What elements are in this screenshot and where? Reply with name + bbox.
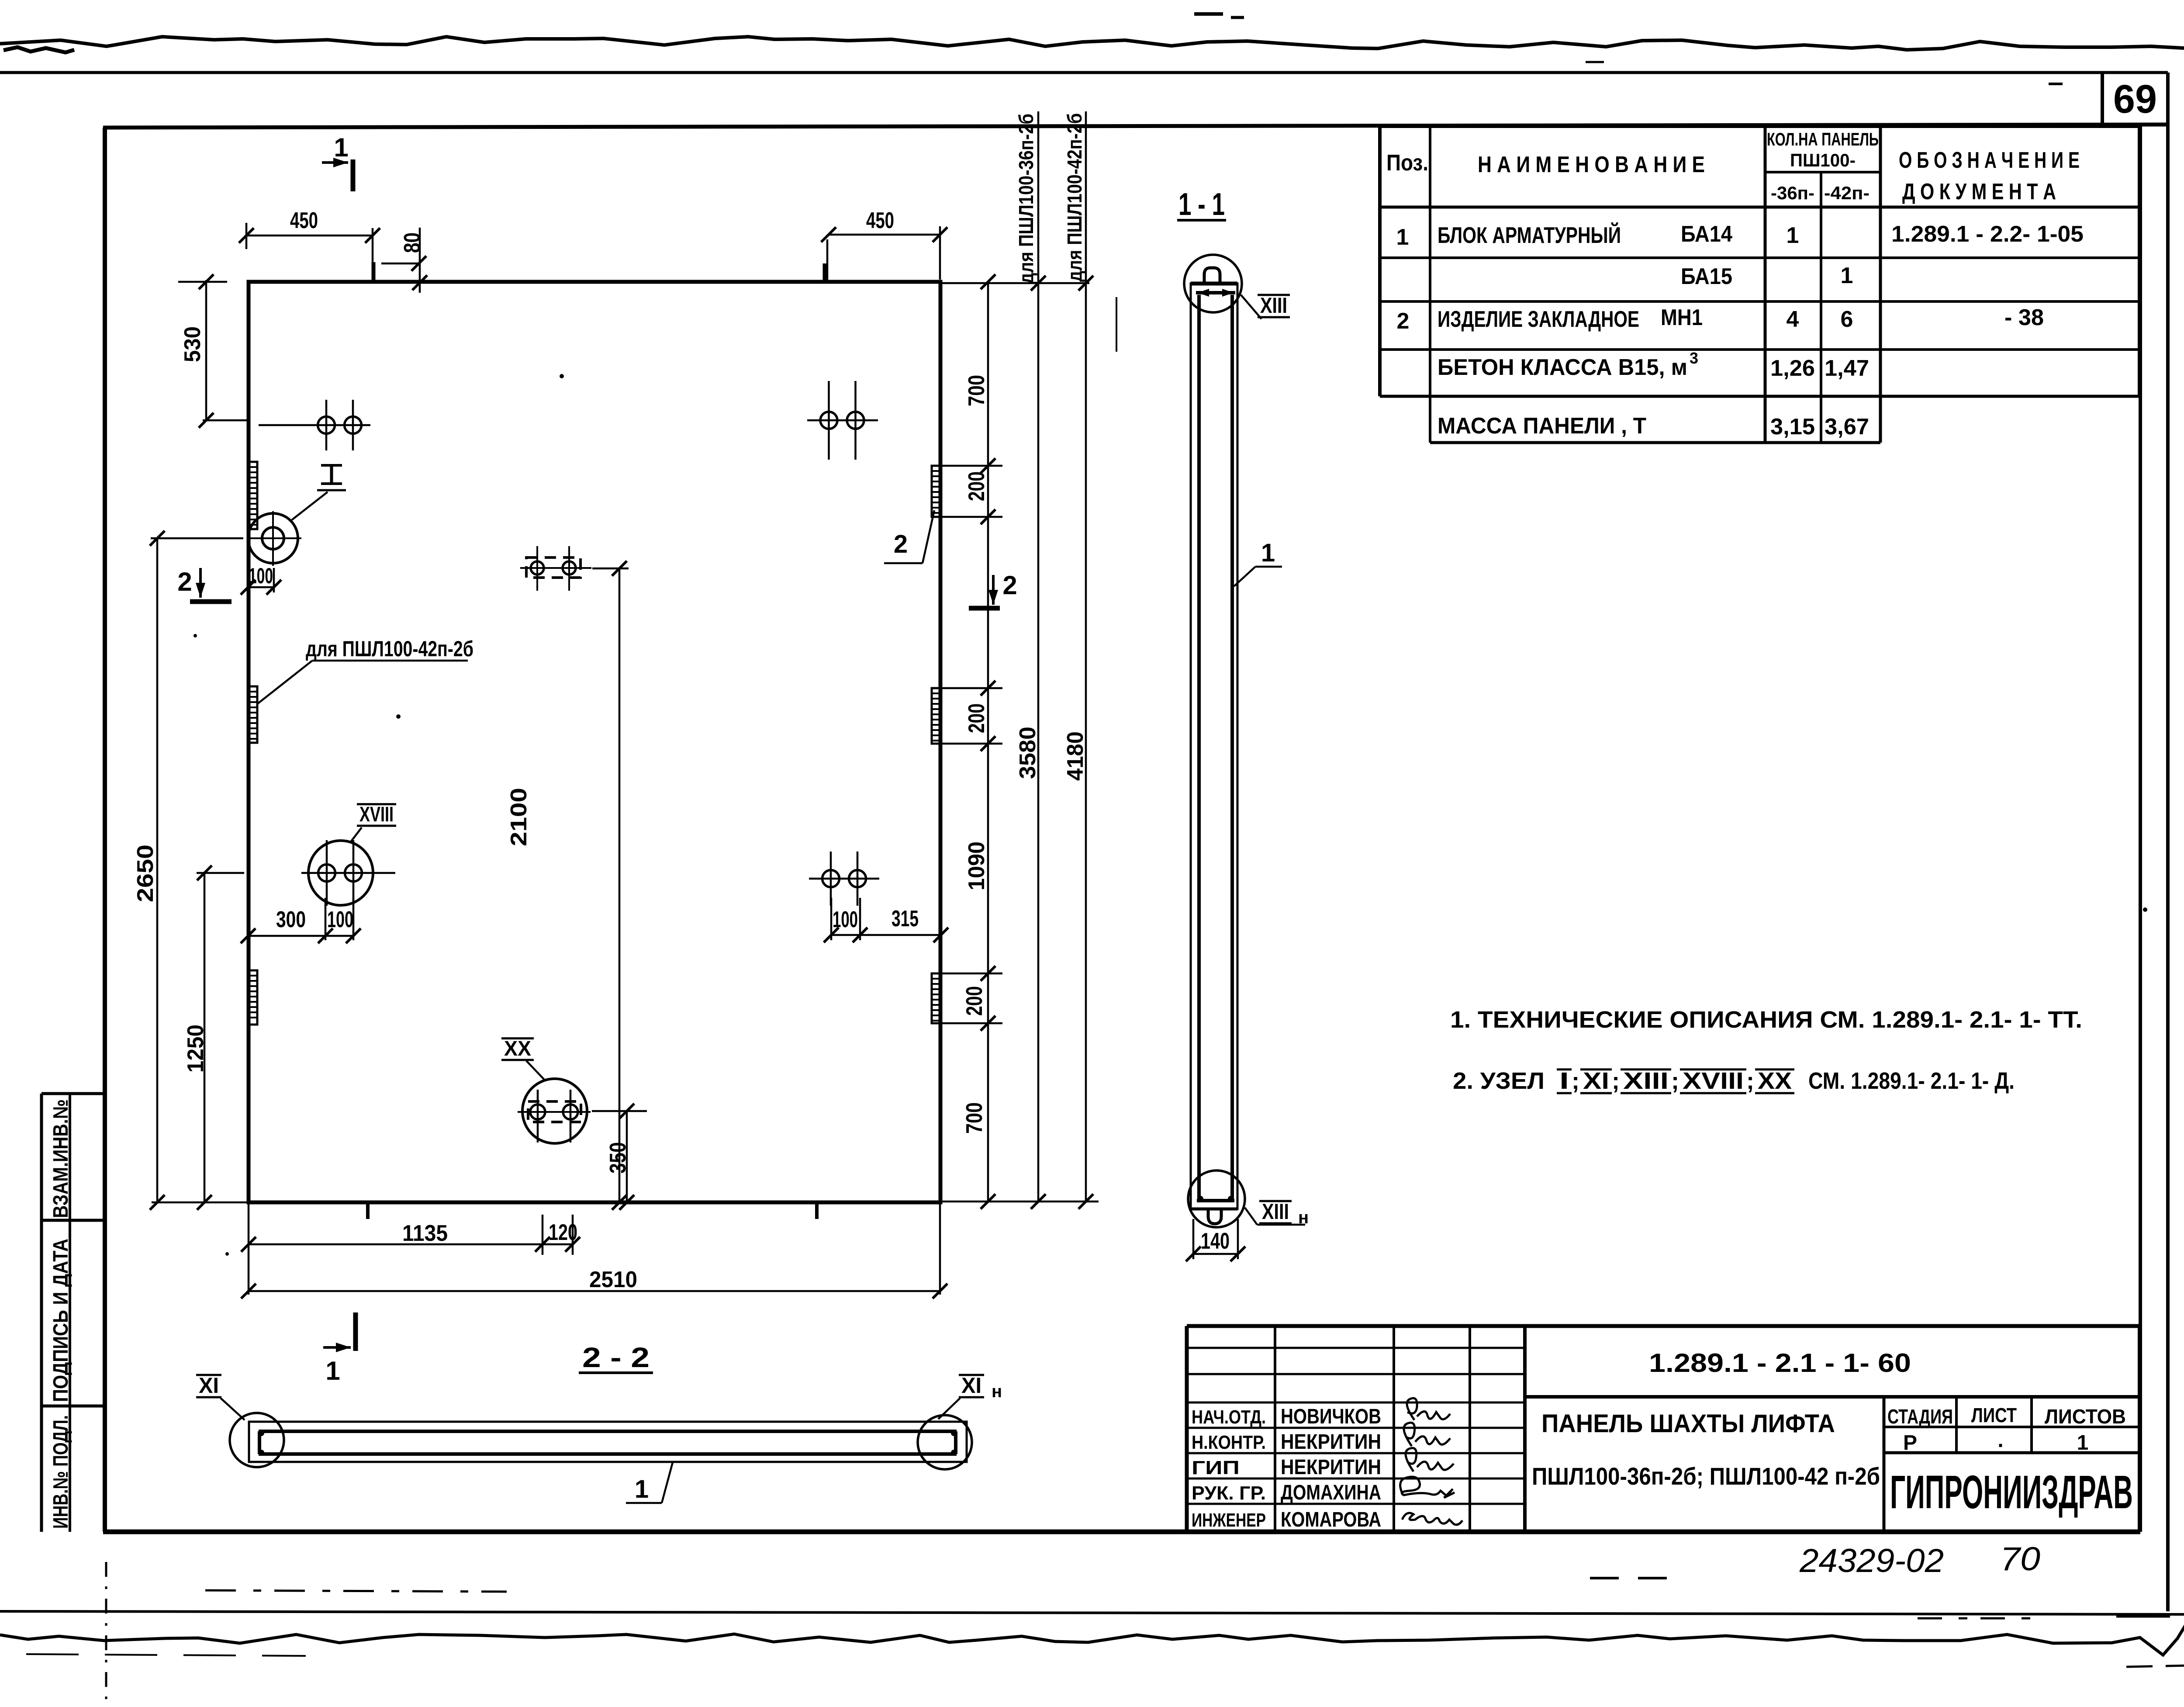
svg-text:200: 200 (962, 986, 987, 1016)
anchor pair top-right (807, 419, 878, 422)
svg-text:ИЗДЕЛИЕ ЗАКЛАДНОЕ: ИЗДЕЛИЕ ЗАКЛАДНОЕ (1438, 307, 1639, 332)
svg-text:XIII: XIII (1262, 1199, 1289, 1224)
dimension 2100 centre (592, 568, 629, 570)
embedded strip R3 (932, 973, 940, 1023)
sheet bottom rule (0, 1611, 2184, 1614)
svg-text:Р: Р (1903, 1431, 1917, 1454)
svg-text:1135: 1135 (402, 1221, 448, 1246)
svg-text:2100: 2100 (506, 788, 532, 846)
section 1-1 bottom bracket (1197, 1199, 1234, 1202)
svg-text:Н.КОНТР.: Н.КОНТР. (1192, 1432, 1266, 1453)
svg-text:315: 315 (892, 906, 919, 931)
svg-text:для ПШЛ100-42п-2б: для ПШЛ100-42п-2б (1063, 113, 1086, 282)
svg-text:140: 140 (1201, 1229, 1230, 1254)
section 1-1 rebar lines (1197, 295, 1201, 1201)
right dimension chain 700/200/200/1090/200/700 (987, 282, 989, 1201)
dimension 2650 left (156, 538, 159, 1202)
section 1-1 top cap (1191, 282, 1237, 286)
svg-text:69: 69 (2113, 77, 2157, 121)
dimension 300 and 100 bottom-left (248, 935, 353, 937)
embedded strip R2 (932, 688, 940, 744)
svg-text:100: 100 (249, 564, 273, 588)
svg-text:I: I (1559, 1068, 1569, 1094)
node XVIII circle (308, 841, 373, 905)
anchor pair top-left (259, 424, 370, 426)
svg-text:3,67: 3,67 (1825, 414, 1869, 440)
svg-text:1: 1 (325, 1356, 340, 1385)
svg-text:2. УЗЕЛ: 2. УЗЕЛ (1453, 1068, 1545, 1094)
svg-text:2: 2 (177, 567, 192, 596)
svg-text:XX: XX (1758, 1068, 1792, 1094)
section 1-1 bottom circle (1188, 1170, 1245, 1227)
svg-text:1: 1 (2077, 1431, 2089, 1454)
svg-text:100: 100 (833, 907, 858, 932)
svg-text:70: 70 (2000, 1541, 2040, 1578)
svg-text:СТАДИЯ: СТАДИЯ (1887, 1405, 1953, 1428)
svg-text:Поз.: Поз. (1386, 150, 1428, 176)
svg-text:2 - 2: 2 - 2 (582, 1342, 650, 1373)
node I label (321, 464, 342, 467)
svg-text:ГИПРОНИИЗДРАВ: ГИПРОНИИЗДРАВ (1890, 1465, 2133, 1518)
svg-text:1,47: 1,47 (1825, 356, 1869, 381)
node XX circle (522, 1079, 587, 1143)
svg-text:XI: XI (199, 1373, 219, 1398)
svg-text:СМ. 1.289.1- 2.1- 1- Д.: СМ. 1.289.1- 2.1- 1- Д. (1808, 1068, 2015, 1094)
svg-text:1.289.1 - 2.2- 1-05: 1.289.1 - 2.2- 1-05 (1891, 222, 2084, 247)
svg-text:530: 530 (180, 326, 205, 362)
svg-text:1: 1 (635, 1475, 649, 1503)
svg-text:ИНВ.№ ПОДЛ.: ИНВ.№ ПОДЛ. (49, 1415, 73, 1529)
embedded strip R1 (932, 466, 940, 517)
svg-text:1250: 1250 (183, 1025, 208, 1073)
signatures (1400, 1398, 1462, 1525)
left sidebar boxes (40, 1094, 43, 1532)
panel outline (plan view) (249, 282, 940, 1202)
title block row lines left part (1187, 1347, 1525, 1349)
svg-text:1.289.1 - 2.1 - 1- 60: 1.289.1 - 2.1 - 1- 60 (1649, 1348, 1911, 1378)
svg-text:450: 450 (290, 208, 318, 233)
section marker 1 (bottom) (353, 1312, 358, 1351)
svg-text:80: 80 (400, 232, 425, 253)
title block column lines left part (1274, 1326, 1276, 1532)
svg-text:1: 1 (1841, 263, 1853, 288)
svg-text:1090: 1090 (964, 841, 989, 890)
svg-text:ИНЖЕНЕР: ИНЖЕНЕР (1192, 1510, 1266, 1531)
svg-text:НЕКРИТИН: НЕКРИТИН (1281, 1430, 1381, 1454)
small mark top middle (1194, 12, 1223, 16)
title block frame (1187, 1324, 2139, 1328)
svg-text:1: 1 (1787, 223, 1799, 248)
position 2 leader to strip R1 (884, 562, 923, 564)
section 1-1 top bracket XIII (1196, 291, 1235, 294)
svg-text:4: 4 (1787, 307, 1799, 332)
torn paper top edge (0, 37, 2184, 50)
svg-text:;: ; (1671, 1068, 1679, 1094)
svg-text:XIII: XIII (1623, 1068, 1669, 1094)
svg-text:НЕКРИТИН: НЕКРИТИН (1281, 1456, 1381, 1479)
svg-text:для ПШЛ100-42п-2б: для ПШЛ100-42п-2б (306, 637, 473, 661)
svg-text:2650: 2650 (133, 845, 158, 902)
dimension 140 section 1-1 (1193, 1253, 1238, 1255)
svg-text:ГИП: ГИП (1192, 1457, 1240, 1478)
dimension 350 at node XX (592, 1110, 647, 1112)
svg-text:НАЧ.ОТД.: НАЧ.ОТД. (1192, 1406, 1266, 1428)
svg-text:БЛОК АРМАТУРНЫЙ: БЛОК АРМАТУРНЫЙ (1438, 222, 1621, 248)
svg-text:2: 2 (1002, 571, 1017, 600)
svg-text:ПАНЕЛЬ ШАХТЫ ЛИФТА: ПАНЕЛЬ ШАХТЫ ЛИФТА (1541, 1409, 1835, 1438)
dimension 1250 left (204, 873, 206, 1202)
torn edge scribble top-left (3, 47, 74, 52)
dimension 450 top-left (246, 235, 373, 237)
svg-text:3: 3 (1690, 349, 1698, 367)
section 2-2 left circle XI (230, 1413, 284, 1467)
fold mark dash-dot bottom-left (105, 1562, 107, 1704)
svg-text:Д О К У М Е Н Т А: Д О К У М Е Н Т А (1902, 179, 2056, 204)
dimension chain 3580 (1037, 111, 1040, 1201)
svg-text:;: ; (1746, 1068, 1754, 1094)
svg-text:РУК. ГР.: РУК. ГР. (1192, 1482, 1266, 1504)
stage/sheet header (1883, 1397, 1886, 1532)
svg-text:XI: XI (961, 1373, 981, 1398)
drawing frame (103, 128, 107, 1532)
outer sheet right edge (2166, 73, 2170, 1611)
node I circle (248, 513, 298, 563)
svg-text:1: 1 (1261, 539, 1275, 567)
section 2-2 right circle XIн (918, 1415, 972, 1469)
svg-text:О Б О З Н А Ч Е Н И Е: О Б О З Н А Ч Е Н И Е (1899, 148, 2080, 173)
svg-text:350: 350 (605, 1142, 631, 1174)
dimension 450 top-right (829, 234, 940, 236)
anchor pair bottom-right (809, 878, 879, 880)
svg-text:2: 2 (894, 530, 908, 558)
svg-text:ПШ100-: ПШ100- (1790, 150, 1856, 170)
svg-text:Н А И М Е Н О В А Н И Е: Н А И М Е Н О В А Н И Е (1478, 152, 1705, 177)
small mark right top (2049, 83, 2063, 85)
svg-text:ЛИСТОВ: ЛИСТОВ (2045, 1405, 2126, 1428)
svg-text:БА15: БА15 (1681, 264, 1732, 289)
section 2-2 rebar lines (259, 1430, 957, 1433)
title block doc number cell (1525, 1395, 2139, 1399)
svg-text:700: 700 (964, 375, 989, 406)
dimension 530 left (205, 280, 207, 420)
section 1-1 top circle (1184, 255, 1242, 312)
svg-text:1 - 1: 1 - 1 (1178, 187, 1225, 222)
embedded strip L2 (249, 686, 257, 743)
svg-text:1. ТЕХНИЧЕСКИЕ ОПИСАНИЯ СМ. 1.: 1. ТЕХНИЧЕСКИЕ ОПИСАНИЯ СМ. 1.289.1- 2.1… (1450, 1007, 2082, 1033)
svg-text:для ПШЛ100-36п-2б: для ПШЛ100-36п-2б (1015, 114, 1037, 284)
dimension 100 and 315 bottom-right (831, 934, 941, 936)
panel bottom edge extension right (940, 1201, 1099, 1203)
svg-text:200: 200 (964, 471, 989, 501)
svg-text:КОЛ.НА ПАНЕЛЬ: КОЛ.НА ПАНЕЛЬ (1767, 129, 1879, 149)
svg-text:1,26: 1,26 (1770, 356, 1815, 381)
svg-text:450: 450 (866, 208, 894, 233)
svg-text:XI: XI (1583, 1068, 1609, 1094)
svg-text:3,15: 3,15 (1770, 414, 1815, 440)
svg-text:ДОМАХИНА: ДОМАХИНА (1281, 1481, 1381, 1504)
sheet top rule (0, 71, 2168, 74)
dimension 80 top-left (381, 263, 420, 265)
svg-text:300: 300 (276, 907, 306, 932)
svg-text:БЕТОН КЛАССА В15, м: БЕТОН КЛАССА В15, м (1438, 355, 1687, 380)
dimension 100 at node I (248, 586, 274, 589)
svg-text:КОМАРОВА: КОМАРОВА (1281, 1508, 1381, 1531)
svg-text:120: 120 (549, 1220, 577, 1245)
panel top edge extension (940, 282, 1089, 284)
svg-text:-42п-: -42п- (1824, 183, 1870, 203)
section marker 2 (right) (992, 575, 995, 605)
tick marks on panel edges (372, 262, 376, 281)
embedded item dashed node (plan centre) (526, 557, 581, 578)
svg-text:- 38: - 38 (2004, 305, 2044, 330)
svg-text:ВЗАМ.ИНВ.№: ВЗАМ.ИНВ.№ (49, 1099, 73, 1218)
dashed fragments above bottom rule (205, 1590, 507, 1592)
dimension 120 bottom (543, 1243, 573, 1246)
section marker 1 (top) (351, 159, 356, 191)
svg-text:XVIII: XVIII (359, 803, 394, 826)
sheet number box 69 (2101, 73, 2104, 125)
svg-text:ПШЛ100-36п-2б; ПШЛ100-42 п-2б: ПШЛ100-36п-2б; ПШЛ100-42 п-2б (1532, 1462, 1880, 1490)
svg-text:XIII: XIII (1260, 293, 1287, 318)
svg-text:2510: 2510 (589, 1267, 637, 1292)
section 1-1 bar outline (1191, 284, 1237, 1209)
svg-text:ПОДПИСЬ И ДАТА: ПОДПИСЬ И ДАТА (49, 1239, 73, 1402)
dimension 2510 bottom (249, 1290, 940, 1292)
svg-text:700: 700 (962, 1102, 987, 1134)
svg-text:XX: XX (504, 1037, 531, 1060)
svg-text:2: 2 (1397, 308, 1410, 334)
svg-text:24329-02: 24329-02 (1799, 1542, 1944, 1579)
section marker 2 (left) (199, 568, 202, 598)
embedded strip L1 (249, 462, 257, 529)
svg-text:МАССА ПАНЕЛИ , Т: МАССА ПАНЕЛИ , Т (1438, 413, 1646, 439)
svg-text:3580: 3580 (1015, 727, 1040, 779)
svg-text:1: 1 (1396, 225, 1409, 250)
embedded strip L3 (249, 970, 257, 1025)
bottom faint second line (26, 1654, 306, 1656)
svg-text:XVIII: XVIII (1683, 1068, 1744, 1094)
svg-text:-36п-: -36п- (1771, 183, 1814, 203)
svg-text:4180: 4180 (1063, 731, 1088, 781)
svg-text:200: 200 (964, 703, 989, 733)
faint dash under top rule (1586, 61, 1604, 63)
section 1-1 bottom cap (1191, 1208, 1237, 1211)
svg-text:;: ; (1572, 1068, 1579, 1094)
dimension chain 4180 (1085, 111, 1087, 1201)
svg-text:1: 1 (334, 133, 348, 162)
speck (560, 374, 564, 378)
svg-text:;: ; (1612, 1068, 1620, 1094)
torn paper bottom edge (0, 1617, 2184, 1655)
svg-text:100: 100 (327, 907, 353, 932)
section 1-1 lifting loop top (1204, 268, 1220, 285)
svg-text:МН1: МН1 (1661, 305, 1703, 330)
svg-text:.: . (1997, 1429, 2003, 1452)
section 1-1 bottom loop (1208, 1209, 1221, 1224)
parts table grid (1380, 125, 2139, 128)
svg-text:н: н (992, 1382, 1002, 1401)
section 2-2 outline (249, 1422, 967, 1462)
svg-text:6: 6 (1841, 307, 1853, 332)
dimension 1135 bottom (249, 1243, 543, 1246)
svg-text:НОВИЧКОВ: НОВИЧКОВ (1281, 1405, 1381, 1428)
svg-text:БА14: БА14 (1681, 222, 1732, 247)
svg-text:ЛИСТ: ЛИСТ (1971, 1404, 2017, 1427)
fold artifact line (1116, 297, 1117, 352)
